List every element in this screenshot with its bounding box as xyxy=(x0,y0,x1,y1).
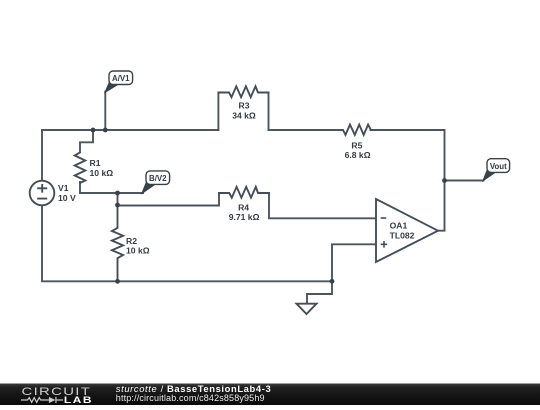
resistor R4 zigzag xyxy=(219,187,269,198)
svg-text:V1: V1 xyxy=(58,183,69,193)
svg-text:9.71 kΩ: 9.71 kΩ xyxy=(229,212,260,222)
resistor R3 zigzag xyxy=(218,86,268,97)
svg-text:R2: R2 xyxy=(126,236,137,246)
node B junction (R1 bottom / B/V2) xyxy=(115,191,120,196)
footer bar xyxy=(0,383,540,405)
wire: R5 right to output corner, down to Vout node and op-amp output xyxy=(371,130,445,231)
ground xyxy=(297,304,317,314)
op-amp OA1 xyxy=(376,199,438,262)
svg-text:B/V2: B/V2 xyxy=(149,174,167,183)
node A junction (A/V1 stem on top rail) xyxy=(103,128,108,133)
svg-text:http://circuitlab.com/c842s858: http://circuitlab.com/c842s858y95h9 xyxy=(116,393,265,403)
svg-text:LAB: LAB xyxy=(64,396,93,405)
node Vout junction xyxy=(442,178,447,183)
svg-text:6.8 kΩ: 6.8 kΩ xyxy=(345,150,371,160)
flag Vout xyxy=(483,159,510,181)
wire: R1 top jog to top rail xyxy=(80,130,93,152)
svg-text:R5: R5 xyxy=(351,140,362,150)
wire: node B vertical link xyxy=(117,193,119,205)
wire: V1 bottom to bottom rail and bottom rail to ground junction xyxy=(42,205,332,281)
wire: R4 right riser to op-amp minus input xyxy=(269,193,376,218)
svg-text:A/V1: A/V1 xyxy=(112,74,130,83)
svg-text:10 kΩ: 10 kΩ xyxy=(126,246,150,256)
svg-text:10 kΩ: 10 kΩ xyxy=(90,168,114,178)
svg-text:34 kΩ: 34 kΩ xyxy=(232,110,256,120)
wire: R3 right riser xyxy=(268,93,270,131)
wire: top rail between R3 and R5 xyxy=(269,129,343,131)
svg-text:OA1: OA1 xyxy=(390,221,408,231)
svg-text:R4: R4 xyxy=(238,203,249,213)
wire: op-amp plus input down to bottom rail xyxy=(332,244,376,281)
flag B/V2 xyxy=(142,171,170,194)
labels xyxy=(58,101,415,256)
node junction bottom rail / op-amp plus / ground xyxy=(330,279,335,284)
wire: Vout flag stem xyxy=(445,180,484,182)
wire: node B to R4 left riser xyxy=(118,193,220,206)
resistor R2 zigzag xyxy=(112,205,123,281)
svg-text:TL082: TL082 xyxy=(390,231,415,241)
node junction R2 top / R4 wire xyxy=(115,203,120,208)
logo doodle: wire-resistor-diode xyxy=(21,397,63,403)
wire: R1 bottom to B/V2 node xyxy=(80,182,143,193)
wire: ground jog xyxy=(307,281,332,303)
svg-text:R3: R3 xyxy=(239,101,250,111)
node junction R2 bottom on bottom rail xyxy=(115,279,120,284)
wire: left vertical from top wire to V1 top xyxy=(41,130,43,181)
wire: top rail from left corner to R3 left riser xyxy=(42,129,218,131)
voltage source V1 xyxy=(30,181,55,206)
flag A/V1 xyxy=(105,71,133,93)
svg-text:10 V: 10 V xyxy=(58,193,76,203)
node junction R1-top rail xyxy=(91,128,96,133)
svg-text:Vout: Vout xyxy=(490,162,507,171)
resistor R1 zigzag xyxy=(75,152,86,183)
svg-text:R1: R1 xyxy=(90,158,101,168)
wire: A/V1 flag stem xyxy=(104,92,106,130)
resistor R5 zigzag xyxy=(342,125,371,135)
wire: R3 left riser xyxy=(217,93,219,131)
